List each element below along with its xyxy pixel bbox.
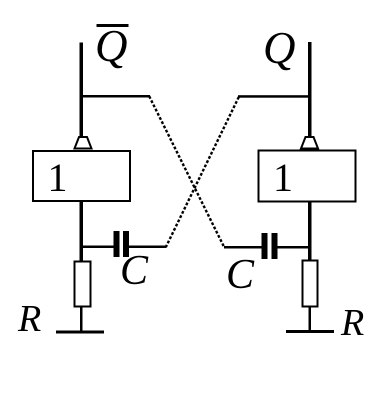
svg-text:Q: Q <box>263 23 296 73</box>
svg-text:R: R <box>340 302 364 344</box>
svg-text:R: R <box>17 298 41 340</box>
svg-text:Q: Q <box>95 21 128 71</box>
svg-text:C: C <box>120 248 149 294</box>
svg-text:1: 1 <box>273 155 293 200</box>
svg-text:C: C <box>226 252 255 298</box>
svg-text:1: 1 <box>48 155 68 200</box>
